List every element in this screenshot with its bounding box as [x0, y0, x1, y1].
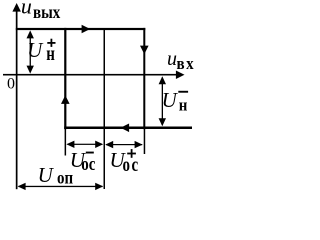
arrow on top segment (rightward) — [82, 25, 91, 34]
label U_ос^+ — [110, 148, 140, 176]
svg-text:вх: вх — [177, 55, 196, 73]
reference line U_оп (thin vertical) — [104, 29, 106, 189]
hysteresis right segment (falling transition) — [143, 28, 145, 129]
label U_н^- — [162, 88, 189, 115]
svg-text:U: U — [27, 38, 44, 62]
svg-text:0: 0 — [7, 75, 15, 92]
svg-text:н: н — [179, 97, 188, 115]
arrow on bottom segment (leftward) — [121, 124, 130, 133]
hysteresis bottom segment — [64, 127, 192, 130]
svg-text:u: u — [167, 48, 177, 70]
svg-text:н: н — [46, 43, 55, 64]
arrow on left segment (upward) — [61, 95, 70, 104]
svg-text:оп: оп — [57, 167, 74, 188]
dimension U_н^- (double arrow between x-axis and bottom level) — [159, 76, 166, 126]
x-axis (u_вх axis) — [3, 70, 185, 79]
svg-text:U: U — [38, 163, 55, 187]
arrow on right segment (downward) — [140, 46, 149, 55]
label U_ос^- — [70, 148, 96, 175]
y-axis (u_вых axis) — [12, 3, 21, 189]
label u_вх — [167, 48, 195, 73]
dimension U_оп (double arrow from y-axis to U_оп line) — [18, 183, 104, 190]
svg-text:ос: ос — [123, 154, 140, 175]
label u_вых — [21, 0, 61, 22]
extension line below left segment — [65, 129, 67, 156]
hysteresis top segment — [16, 28, 146, 30]
label U_н^+ — [27, 38, 55, 65]
svg-text:U: U — [162, 88, 179, 112]
label U_оп — [38, 163, 74, 188]
svg-text:u: u — [21, 0, 32, 19]
svg-text:ос: ос — [81, 154, 96, 175]
svg-text:вых: вых — [33, 2, 61, 23]
extension line below right segment — [144, 129, 146, 154]
dimension U_ос^- (double arrow between left segment and U_оп line) — [66, 141, 103, 148]
hysteresis left segment (rising transition) — [64, 28, 66, 129]
dimension U_ос^+ (double arrow between U_оп line and right segment) — [105, 141, 142, 148]
dimension U_н^+ (double arrow between top level and x-axis) — [27, 30, 34, 73]
